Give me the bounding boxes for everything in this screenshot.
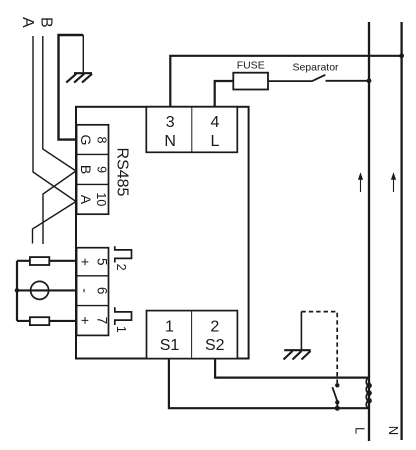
relay contact stub bbox=[336, 402, 338, 408]
svg-text:Separator: Separator bbox=[292, 61, 339, 73]
svg-text:7: 7 bbox=[95, 317, 110, 325]
pulse symbol P2 bbox=[115, 246, 132, 262]
svg-text:4: 4 bbox=[211, 114, 220, 131]
wire resistor bottom branch bbox=[17, 320, 77, 322]
terminal block 3 N 4 L bbox=[146, 107, 237, 153]
svg-text:S2: S2 bbox=[205, 337, 225, 354]
ground shield bbox=[66, 73, 92, 82]
wire B to terminal B bbox=[43, 36, 76, 171]
fuse FUSE bbox=[233, 73, 268, 90]
svg-text:L: L bbox=[211, 133, 220, 150]
svg-text:A: A bbox=[78, 195, 94, 205]
resistor R2 bbox=[30, 317, 49, 325]
separator switch blade bbox=[312, 75, 325, 81]
wire twisted pair return from A bbox=[33, 202, 77, 244]
pulse symbol P1 bbox=[115, 307, 132, 325]
svg-text:N: N bbox=[386, 426, 401, 435]
svg-text:8: 8 bbox=[94, 137, 108, 144]
junction S1 wire bbox=[335, 406, 340, 411]
wire N mains vertical bbox=[400, 22, 402, 440]
svg-text:2: 2 bbox=[210, 319, 219, 336]
svg-text:A: A bbox=[19, 17, 36, 28]
terminal block RS485 G B A bbox=[77, 125, 109, 214]
wire A to terminal A bbox=[33, 36, 76, 202]
relay contact top bbox=[335, 383, 339, 387]
svg-text:N: N bbox=[164, 133, 176, 150]
relay switch blade bbox=[332, 387, 337, 401]
svg-text:+: + bbox=[78, 258, 94, 266]
svg-text:B: B bbox=[78, 165, 94, 174]
svg-text:9: 9 bbox=[94, 166, 108, 173]
wire resistor top branch bbox=[17, 260, 77, 262]
relay coil bbox=[366, 378, 371, 408]
wire S2 to relay coil bbox=[215, 359, 369, 378]
svg-text:5: 5 bbox=[95, 258, 110, 266]
svg-text:L: L bbox=[353, 427, 368, 434]
svg-text:1: 1 bbox=[114, 326, 128, 333]
wire source branch bbox=[17, 289, 77, 291]
resistor R1 bbox=[30, 257, 49, 265]
ground aux bbox=[300, 312, 302, 350]
terminal block S1 S2 bbox=[147, 311, 238, 359]
svg-text:+: + bbox=[78, 316, 94, 324]
wire S1 to L line bbox=[169, 359, 369, 409]
wire L mains vertical bbox=[368, 22, 370, 441]
junction pulse bus bbox=[15, 288, 20, 293]
svg-text:B: B bbox=[38, 17, 55, 28]
svg-text:6: 6 bbox=[95, 287, 110, 295]
svg-text:RS485: RS485 bbox=[113, 148, 130, 197]
wire shield drop bbox=[82, 35, 84, 72]
svg-text:3: 3 bbox=[166, 114, 175, 131]
dashed control line bbox=[301, 312, 337, 384]
meter outline bbox=[76, 107, 249, 359]
arrow L current direction bbox=[360, 179, 362, 193]
wire L to fuse bbox=[215, 81, 234, 107]
wire fuse to separator bbox=[268, 80, 312, 82]
wire N to terminal 3 bbox=[170, 56, 401, 107]
wire pulse bus bbox=[16, 261, 18, 321]
svg-text:G: G bbox=[78, 135, 94, 146]
terminal block pulse 5 6 7 bbox=[77, 248, 109, 336]
source V1 bbox=[31, 281, 49, 299]
svg-text:-: - bbox=[78, 288, 94, 293]
svg-text:1: 1 bbox=[165, 319, 174, 336]
wire separator to L line bbox=[326, 80, 370, 82]
svg-text:2: 2 bbox=[114, 264, 128, 271]
svg-text:S1: S1 bbox=[160, 337, 180, 354]
wire twisted pair return from B bbox=[43, 171, 76, 244]
svg-text:FUSE: FUSE bbox=[237, 60, 265, 72]
junction N bbox=[399, 53, 404, 58]
junction L bbox=[367, 78, 372, 83]
svg-text:10: 10 bbox=[94, 192, 108, 206]
arrow N current direction bbox=[393, 179, 395, 193]
wire shield loop to terminal G bbox=[59, 35, 84, 140]
relay contact bottom bbox=[335, 400, 339, 404]
